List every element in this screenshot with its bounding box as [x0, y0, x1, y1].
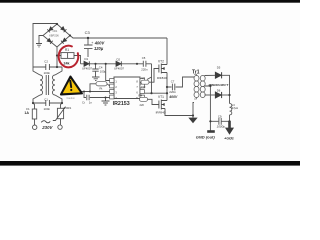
svg-text:400V: 400V — [94, 40, 106, 45]
svg-text:R3: R3 — [142, 76, 146, 80]
svg-text:+: + — [91, 41, 93, 45]
svg-text:UF4007: UF4007 — [82, 66, 92, 70]
svg-text:100µ: 100µ — [100, 70, 107, 74]
svg-text:D5: D5 — [217, 66, 221, 70]
svg-text:220n: 220n — [141, 67, 148, 71]
svg-text:IRF840: IRF840 — [157, 76, 167, 80]
svg-text:Ct: Ct — [82, 101, 85, 105]
svg-text:R1: R1 — [65, 48, 69, 52]
svg-text:VDR1: VDR1 — [64, 106, 72, 110]
svg-text:Caution: Caution — [67, 97, 76, 100]
svg-text:120µ: 120µ — [94, 46, 104, 51]
svg-text:100n: 100n — [44, 71, 51, 75]
svg-text:400V: 400V — [168, 95, 178, 99]
svg-text:1000µ: 1000µ — [217, 125, 226, 129]
svg-text:24k: 24k — [64, 62, 70, 66]
svg-text:C3: C3 — [85, 30, 91, 35]
svg-text:Tr1: Tr1 — [192, 70, 200, 76]
svg-text:1A: 1A — [24, 111, 29, 115]
svg-text:C9: C9 — [218, 115, 222, 119]
svg-text:C7: C7 — [171, 80, 175, 84]
svg-text:KBP206: KBP206 — [49, 33, 59, 37]
svg-text:150: 150 — [141, 85, 146, 89]
svg-text:UF4007: UF4007 — [114, 66, 124, 70]
svg-text:D6: D6 — [217, 89, 221, 93]
svg-text:C1: C1 — [44, 97, 48, 101]
svg-text:D2: D2 — [117, 58, 121, 62]
svg-text:C2: C2 — [44, 60, 48, 64]
svg-text:GND (out): GND (out) — [196, 134, 216, 139]
svg-text:230V: 230V — [41, 125, 53, 130]
svg-text:MBR20100CT: MBR20100CT — [209, 83, 230, 87]
svg-text:VD1: VD1 — [52, 29, 58, 33]
svg-text:IR2153: IR2153 — [113, 101, 130, 107]
svg-text:VT1: VT1 — [158, 95, 164, 99]
svg-text:C5: C5 — [142, 56, 146, 60]
svg-text:D1: D1 — [85, 57, 89, 61]
svg-text:47µH: 47µH — [232, 106, 238, 110]
svg-text:VT2: VT2 — [158, 59, 164, 63]
svg-text:220n: 220n — [169, 90, 176, 94]
svg-text:100n: 100n — [44, 107, 51, 111]
svg-text:IRF840: IRF840 — [156, 110, 166, 114]
svg-text:+Udc: +Udc — [224, 136, 235, 141]
svg-text:1n: 1n — [89, 101, 93, 105]
svg-text:Rt: Rt — [100, 86, 103, 90]
svg-text:220: 220 — [140, 103, 145, 107]
svg-text:R4: R4 — [139, 94, 143, 98]
